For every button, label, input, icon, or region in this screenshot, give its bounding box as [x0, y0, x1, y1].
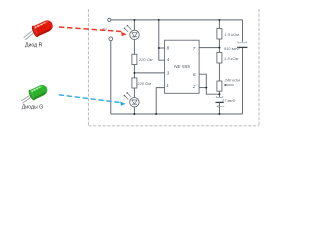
resistor R4 1.5k [217, 53, 222, 64]
dashed boundary frame bottom [88, 125, 259, 127]
wire pin7 stub [199, 47, 219, 49]
wire LED G to bottom rail [133, 107, 135, 114]
wire pin2 stub [199, 87, 206, 89]
wire R1 to R2 [133, 65, 135, 78]
svg-text:1: 1 [166, 83, 169, 88]
wire right chain segments [218, 20, 220, 29]
dashed boundary frame right [258, 9, 260, 126]
wire top rail V+ [111, 19, 243, 21]
svg-text:220 Ом: 220 Ом [136, 81, 151, 86]
LED D1 emission arrows [124, 25, 131, 32]
wire pin8 stub [159, 47, 165, 49]
svg-text:Диод R: Диод R [25, 43, 43, 49]
resistor R5 240k [217, 81, 222, 91]
resistor R1 220 Ohm [132, 54, 137, 64]
wire pin8 pin4 riser [159, 20, 165, 60]
svg-text:Диоды G: Диоды G [22, 105, 43, 111]
photo red LED [24, 18, 55, 40]
LED D1 red symbol [130, 30, 139, 39]
wire LED chain top [133, 20, 135, 30]
svg-text:240 кОм: 240 кОм [224, 78, 241, 83]
junction node dots [133, 19, 220, 115]
resistor R2 220 Ohm [132, 78, 137, 88]
wire left rail ground [110, 41, 112, 114]
svg-text:510 мкФ: 510 мкФ [224, 46, 240, 51]
svg-text:220 Ом: 220 Ом [138, 57, 153, 62]
capacitor C2 510uF plates [238, 42, 247, 43]
wire LED R to R1 [133, 40, 135, 55]
dashed boundary frame left [87, 9, 89, 126]
red callout dashed arrow [59, 27, 127, 36]
svg-text:3: 3 [167, 70, 170, 75]
resistor R3 1.5k [217, 29, 222, 40]
terminal - input [109, 37, 113, 41]
svg-text:27 мкФ: 27 мкФ [221, 98, 236, 103]
capacitor C1 27uF plates [216, 96, 223, 97]
svg-text:NE 555: NE 555 [174, 64, 190, 69]
svg-text:8: 8 [167, 45, 170, 50]
wire pin3 to LED junction [134, 72, 164, 74]
wire right cap branch vertical top [242, 20, 244, 42]
op-amp U1 NE555 box [165, 40, 200, 93]
callout arrow 240k [224, 84, 234, 86]
LED D2 emission arrows [124, 92, 131, 99]
wire pin6 stub [199, 74, 219, 94]
cyan callout dashed arrow [59, 95, 126, 106]
photo green LED [21, 83, 49, 104]
svg-text:2: 2 [192, 84, 196, 89]
wire pin1 to ground [156, 88, 164, 114]
callout arrow 27uF [217, 106, 225, 108]
wire right cap branch vertical bottom [242, 47, 244, 114]
svg-text:1.5 кОм: 1.5 кОм [224, 32, 239, 37]
wire bottom rail [111, 113, 243, 115]
terminal + input [108, 18, 111, 21]
svg-text:6: 6 [193, 72, 196, 77]
wire R2 to LED G [133, 88, 135, 98]
green LED legs [21, 96, 31, 104]
red LED legs [24, 31, 33, 40]
svg-text:1.5 кОм: 1.5 кОм [224, 56, 239, 61]
svg-text:4: 4 [167, 57, 170, 62]
LED D2 green symbol [130, 98, 139, 107]
svg-text:7: 7 [193, 46, 196, 51]
